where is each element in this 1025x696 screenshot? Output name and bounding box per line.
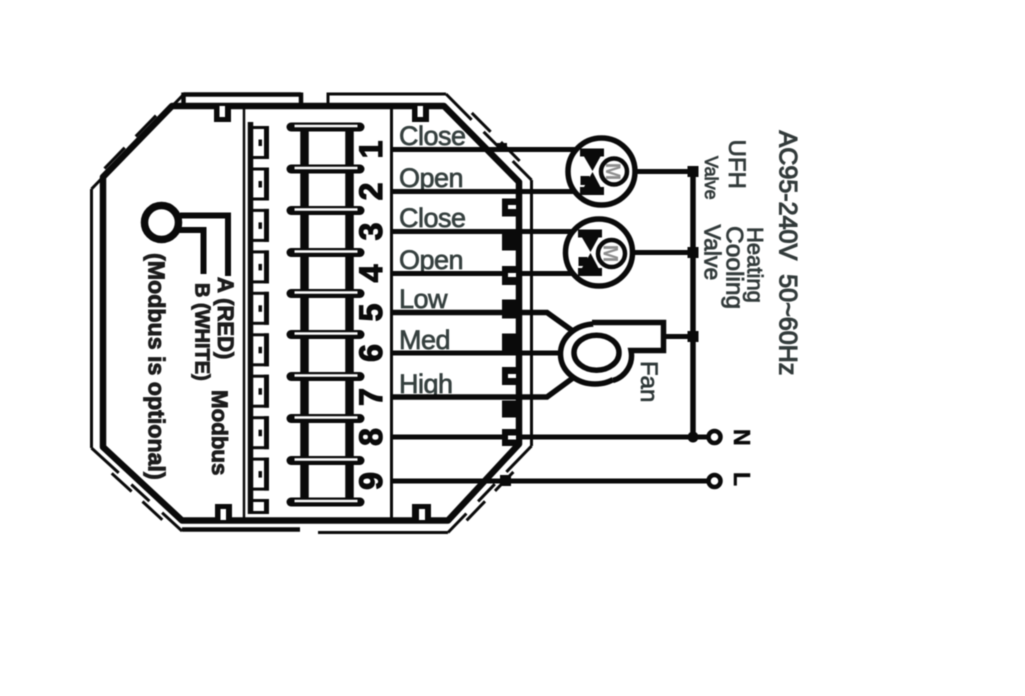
- svg-text:2: 2: [353, 183, 389, 201]
- fan scroll housing: [592, 323, 664, 381]
- wire 7 (High -> fan): [392, 375, 578, 397]
- junction at valve U1 output: [688, 166, 699, 177]
- wire 6 (Med -> fan): [392, 351, 566, 356]
- svg-text:Low: Low: [399, 284, 448, 314]
- wire 8 (N): [392, 435, 708, 440]
- motorized valve U2 body: [566, 219, 633, 286]
- svg-text:Close: Close: [399, 203, 466, 233]
- wire 3 (Close -> valve U2 upper): [392, 229, 577, 234]
- N terminal circle: [709, 431, 721, 443]
- terminal block ladder rails: [305, 127, 350, 502]
- valve U2 bowtie symbol: [578, 230, 602, 277]
- terminal contact strip contacts: [252, 126, 268, 514]
- wire 4 (Open -> valve U2 lower): [392, 271, 577, 276]
- wire 9 (L): [392, 479, 708, 484]
- case clip tab bottom-left: [215, 504, 232, 520]
- svg-text:Modbus: Modbus: [207, 390, 232, 475]
- bottom-left diagonal notch flaps: [112, 473, 163, 520]
- svg-text:Open: Open: [399, 245, 463, 275]
- svg-text:4: 4: [353, 264, 389, 282]
- case clip tab top-right: [412, 106, 429, 122]
- modbus wire B: [179, 230, 204, 274]
- svg-text:M: M: [601, 163, 624, 181]
- svg-text:A (RED): A (RED): [213, 277, 238, 359]
- case clip tab bottom-right: [412, 504, 431, 520]
- top-right diagonal notch flaps: [472, 113, 520, 161]
- svg-text:N: N: [729, 429, 755, 446]
- svg-text:UFH: UFH: [723, 140, 750, 189]
- wire 2 (Open -> valve U1 lower): [392, 189, 579, 194]
- svg-text:6: 6: [353, 344, 389, 362]
- thermostat case outer outline: bottom-right diagonal: [448, 446, 532, 533]
- contact strip spine: [248, 122, 254, 514]
- wire 1 (Close -> valve U1 upper): [392, 147, 578, 152]
- thermostat case outer outline: left edge: [90, 189, 93, 448]
- valve U1 output wire: [636, 169, 693, 174]
- svg-text:3: 3: [353, 223, 389, 241]
- screw slots (white slits in bars): [295, 126, 358, 501]
- valve U1 motor circle: [601, 159, 627, 185]
- thermostat case outer outline: bottom segment 2: [318, 531, 448, 534]
- modbus port circle: [145, 206, 179, 240]
- valve U1 bowtie symbol: [580, 149, 604, 196]
- valve U2 output wire: [634, 250, 694, 255]
- svg-text:Valve: Valve: [701, 156, 721, 200]
- thermostat case outer outline: top-right diagonal: [446, 94, 532, 180]
- interior vertical line (left wall of terminal bay): [243, 106, 246, 520]
- thermostat case outer outline: bottom segment 1: [182, 527, 300, 532]
- junction at valve U2 output: [688, 247, 699, 258]
- svg-text:7: 7: [353, 388, 389, 406]
- bus wire (valve/fan outputs to N): [690, 172, 696, 438]
- interior vertical separator line (label area): [390, 106, 393, 520]
- junction at fan output: [688, 331, 699, 342]
- case clip tab top-left: [214, 106, 231, 122]
- valve U2 motor circle: [598, 240, 625, 267]
- thermostat case outer outline: right edge: [530, 180, 533, 446]
- fan body circle: [561, 324, 630, 384]
- modbus wire A: [180, 216, 228, 277]
- L terminal circle: [709, 475, 721, 487]
- svg-text:(Modbus is optional): (Modbus is optional): [144, 253, 170, 480]
- top-left diagonal notch flaps: [105, 116, 157, 169]
- motorized valve U1 body: [568, 138, 635, 205]
- thermostat case inner outline: [103, 106, 519, 521]
- wire 5 (Low -> fan): [392, 313, 578, 335]
- svg-text:5: 5: [353, 304, 389, 322]
- lug slots: [508, 205, 516, 440]
- wire exit lugs on case right edge: [497, 143, 519, 486]
- bottom-right diagonal notch flaps: [467, 472, 514, 521]
- junction at N wire: [688, 432, 699, 443]
- fan output wire: [664, 334, 694, 339]
- svg-text:9: 9: [353, 472, 389, 490]
- svg-text:B (WHITE): B (WHITE): [191, 283, 213, 381]
- thermostat case outer outline: top segment 1: [184, 93, 302, 105]
- thermostat case outer outline: bottom-left diagonal: [92, 448, 183, 531]
- svg-text:M: M: [599, 245, 622, 263]
- terminal block screw bars: [291, 127, 360, 502]
- svg-text:Open: Open: [399, 163, 463, 193]
- svg-text:1: 1: [353, 141, 389, 159]
- svg-text:Valve: Valve: [700, 225, 726, 281]
- svg-text:8: 8: [353, 428, 389, 446]
- svg-text:Close: Close: [399, 121, 466, 151]
- fan impeller ellipse: [574, 335, 619, 370]
- thermostat case outer outline: top-left diagonal: [92, 95, 184, 190]
- svg-text:L: L: [729, 472, 755, 486]
- svg-text:Fan: Fan: [635, 361, 662, 402]
- thermostat case outer outline: top segment 2: [328, 93, 446, 104]
- svg-text:AC95-240V 50~60Hz: AC95-240V 50~60Hz: [774, 131, 802, 376]
